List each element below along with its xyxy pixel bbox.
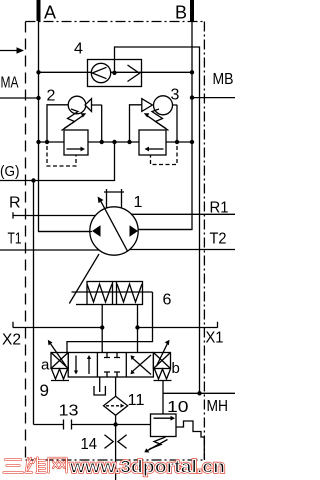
svg-text:b: b: [172, 360, 180, 377]
wire MA line: [0, 97, 39, 99]
node bottom junction: [113, 422, 117, 426]
pilot line relief 3: [151, 146, 178, 165]
spring relief 3: [152, 109, 166, 129]
node relief-line dots: [45, 140, 49, 144]
wire tank drop: [115, 425, 117, 480]
spring cylinder right: [117, 284, 142, 302]
spring b: [155, 369, 171, 379]
spring a: [52, 369, 68, 379]
piston rod: [72, 291, 153, 293]
node A-line dots: [36, 70, 40, 74]
spring cylinder left: [87, 284, 112, 302]
node comp4 tap junction: [112, 71, 116, 75]
watermark: [4, 458, 67, 474]
svg-text:MH: MH: [207, 398, 229, 415]
svg-text:X2: X2: [2, 332, 21, 349]
motor variable arrow: [101, 201, 128, 251]
relief valve 3: [139, 130, 166, 155]
valve 9 body: [68, 353, 153, 378]
check valve of relief 2: [47, 105, 68, 142]
motor triangle left: [92, 225, 101, 237]
wire flushing tap: [115, 47, 200, 393]
check valve 4: [88, 60, 142, 87]
wire A-line: [39, 21, 93, 232]
svg-text:R: R: [9, 195, 21, 212]
pilot line relief 2: [47, 146, 76, 166]
port R line: [13, 212, 95, 218]
wire cylinder right port drop: [137, 305, 139, 353]
svg-text:11: 11: [128, 392, 145, 409]
svg-text:MB: MB: [213, 71, 234, 88]
port X2 line: [13, 322, 102, 328]
svg-text:10: 10: [167, 399, 189, 416]
wire cylinder left port drop: [101, 305, 103, 353]
tank symbol under valve: [94, 377, 105, 395]
pilot a: [51, 353, 68, 369]
valve 9 right box crossed arrows: [132, 358, 151, 375]
wire bottom drain line: [34, 424, 151, 426]
orifice 14: [105, 435, 127, 449]
svg-text:R1: R1: [210, 200, 229, 217]
svg-text:www.3dportal.cn: www.3dportal.cn: [69, 457, 225, 477]
port A bar: [37, 0, 41, 21]
relief valve 10: [151, 414, 177, 437]
enclosure boundary right: [203, 22, 205, 461]
motor port line right: [138, 229, 192, 231]
motor 1 case: [90, 207, 138, 255]
svg-text:B: B: [175, 3, 187, 23]
wire B-line: [138, 21, 192, 230]
svg-text:A: A: [44, 3, 56, 23]
spring relief 2: [64, 109, 78, 129]
node G junction: [31, 178, 35, 182]
node X2 junction: [100, 325, 104, 329]
wire G pilot spine: [33, 181, 35, 425]
pilot b: [153, 353, 170, 369]
wire MB line: [192, 97, 235, 99]
svg-text:MA: MA: [1, 75, 20, 92]
svg-text:3: 3: [171, 87, 180, 104]
node MH junction: [197, 391, 201, 395]
svg-text:X1: X1: [206, 330, 224, 347]
port T2 line: [129, 249, 235, 251]
svg-text:9: 9: [40, 381, 49, 400]
svg-text:2: 2: [47, 88, 56, 105]
wire G gauge line: [0, 142, 115, 181]
svg-text:a: a: [41, 357, 50, 374]
port B bar: [190, 0, 194, 21]
wire MH line: [163, 392, 235, 394]
valve 9 centre box blocked ports: [104, 353, 120, 358]
svg-text:(G): (G): [0, 164, 20, 180]
inlet arrow: [0, 50, 17, 52]
wire relief 10 feed: [162, 381, 164, 415]
node B-line dots: [190, 70, 194, 74]
wire crossover relief line: [39, 141, 193, 143]
svg-text:T1: T1: [8, 231, 22, 248]
spring relief 10: [150, 437, 166, 449]
svg-text:4: 4: [74, 41, 83, 58]
motor drain cap: [104, 189, 124, 208]
valve 9 left box arrows: [75, 356, 77, 371]
motor triangle right: [130, 225, 139, 237]
wire drain to flushing valve: [115, 377, 117, 396]
stroking cylinder 6: [87, 282, 143, 305]
svg-text:14: 14: [81, 436, 98, 453]
svg-text:13: 13: [59, 403, 79, 420]
port R1 line: [132, 213, 236, 215]
wire cylinder rod feedback: [67, 292, 153, 353]
flushing valve 11: [104, 396, 128, 415]
enclosure boundary top: [26, 21, 205, 23]
wire check-4 through line: [39, 71, 193, 73]
linkage to stroking piston: [69, 254, 99, 304]
svg-text:T2: T2: [210, 231, 227, 248]
port X1 line: [138, 322, 218, 328]
svg-text:1: 1: [134, 194, 143, 211]
test coupling 13: [64, 420, 72, 430]
enclosure boundary left: [25, 22, 27, 461]
port T1 line: [0, 249, 99, 251]
check valve of relief 3: [130, 105, 142, 142]
svg-text:6: 6: [163, 292, 172, 309]
motor port line left: [39, 231, 93, 233]
enclosure boundary bottom: [26, 459, 205, 461]
wire relief 10 outlet: [176, 421, 204, 459]
relief valve 2: [64, 130, 88, 155]
node X1 junction: [135, 325, 139, 329]
